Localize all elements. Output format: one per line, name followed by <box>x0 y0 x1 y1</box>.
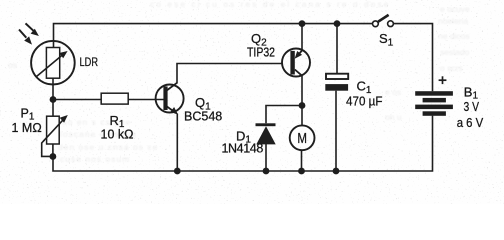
wire Q1 collector up <box>177 64 282 84</box>
wire Q1 emitter down <box>176 114 178 172</box>
svg-text:e ocuve: e ocuve <box>440 4 470 14</box>
wire C1 bottom <box>335 91 337 171</box>
transistor Q1 <box>156 83 184 115</box>
svg-text:on u: on u <box>385 112 402 122</box>
battery B1 <box>415 91 453 116</box>
svg-text:3 V: 3 V <box>464 99 480 114</box>
battery plus sign <box>439 76 447 84</box>
switch S1 <box>373 15 394 27</box>
wire junction to D1 <box>266 106 302 124</box>
svg-text:LDR: LDR <box>80 55 99 69</box>
motor M <box>290 125 315 150</box>
capacitor C1 <box>325 74 348 91</box>
node P1 wiper junction <box>50 153 57 160</box>
svg-text:os: os <box>8 60 17 70</box>
wire bottom rail <box>53 116 433 171</box>
svg-text:o scrs: o scrs <box>440 63 463 73</box>
potentiometer P1 <box>42 100 68 157</box>
svg-text:den ose u cnsa os ce: den ose u cnsa os ce <box>58 142 158 152</box>
svg-text:1N4148: 1N4148 <box>222 141 264 155</box>
svg-text:10 kΩ: 10 kΩ <box>101 128 134 142</box>
wire motor down <box>301 150 303 171</box>
svg-text:seslado: seslado <box>440 47 470 57</box>
svg-text:co ese ci cu os res de el cana: co ese ci cu os res de el cana s re o do… <box>150 0 390 9</box>
svg-text:cuse nos osum: cuse nos osum <box>60 154 130 164</box>
wire C1 top <box>336 24 338 74</box>
svg-text:M: M <box>297 131 307 147</box>
diode D1 <box>256 123 276 144</box>
svg-text:ne dicos: ne dicos <box>438 31 470 41</box>
resistor R1 <box>101 93 128 104</box>
svg-text:e os: e os <box>385 87 401 97</box>
svg-text:noelena: noelena <box>438 16 469 26</box>
wire top rail left (LDR top to switch) <box>54 24 373 48</box>
svg-text:a 6 V: a 6 V <box>457 115 484 130</box>
node A (LDR / P1 / R1 junction) <box>50 96 57 103</box>
node Q2 collector / D1 / motor junction <box>299 102 306 109</box>
node C1 on rail <box>333 168 340 175</box>
wire node to R1 <box>53 99 101 101</box>
node D1 on rail <box>263 168 270 175</box>
LDR <box>31 41 75 85</box>
wire Q2 emitter up <box>301 24 303 51</box>
wire top rail right (switch to battery corner) <box>394 24 433 92</box>
light arrow 1 <box>26 23 39 36</box>
wire R1 to Q1 base <box>128 99 163 101</box>
node Q1 emitter on rail <box>174 168 181 175</box>
transistor Q2 <box>282 49 310 77</box>
svg-text:BC548: BC548 <box>184 110 222 124</box>
svg-text:TIP32: TIP32 <box>247 46 275 60</box>
node motor on rail <box>298 168 305 175</box>
wire LDR bottom to node <box>52 78 54 99</box>
svg-text:1 MΩ: 1 MΩ <box>12 121 42 135</box>
wire Q2 collector down <box>301 76 303 106</box>
wire D1 anode down <box>265 144 267 171</box>
svg-text:470 µF: 470 µF <box>346 94 383 108</box>
light arrow 2 <box>19 30 32 45</box>
wire junction to motor <box>301 106 303 126</box>
node Q2 emitter on top rail <box>299 20 306 27</box>
node C1 top on rail <box>334 20 341 27</box>
